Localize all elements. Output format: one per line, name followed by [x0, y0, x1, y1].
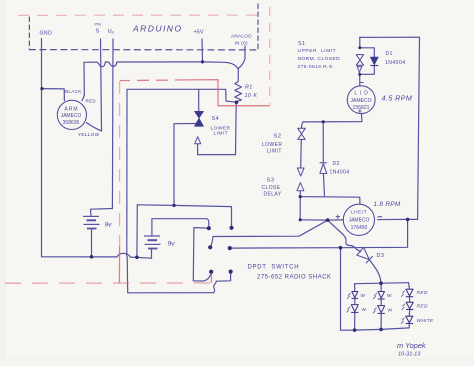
svg-text:176450: 176450: [351, 225, 368, 231]
LED W5 column3 bottom white: [406, 316, 413, 323]
svg-text:W: W: [361, 293, 366, 299]
svg-text:m Yopek: m Yopek: [397, 341, 426, 350]
junction node GND to black wire: [40, 87, 43, 90]
LED W5 emission arrows: [401, 318, 405, 324]
wire LED array bottom rail: [341, 328, 410, 330]
red marker dashed segment toward left vertical: [120, 79, 187, 82]
switch S2 actuator arrow open: [297, 168, 304, 176]
svg-text:275-0616 R.S.: 275-0616 R.S.: [298, 64, 335, 70]
svg-text:JAMECO: JAMECO: [349, 218, 370, 224]
svg-text:NORM. CLOSED: NORM. CLOSED: [298, 56, 341, 62]
switch S2 contact bowtie: [298, 128, 305, 139]
switch S4 top lead: [198, 89, 200, 111]
svg-text:YELLOW: YELLOW: [78, 132, 100, 137]
wire diagonal from M2 plus node to D3 with curl: [328, 220, 361, 251]
motor M1 bottom lead to S2 chain: [302, 113, 362, 128]
svg-text:155821: 155821: [353, 105, 370, 111]
wire battery A top lead: [91, 209, 113, 217]
junction node M2 plus diagonal: [326, 218, 330, 222]
battery B bottom lead: [151, 249, 153, 259]
svg-text:9v: 9v: [105, 222, 113, 229]
svg-text:RED: RED: [417, 304, 428, 310]
Arduino boundary dashed left riser: [28, 17, 30, 50]
junction node LED rail top middle: [379, 281, 383, 285]
LED R2 column3 middle: [406, 302, 413, 309]
switch S4 actuator lead to R1 bottom sense line: [198, 103, 237, 155]
LED R2 emission arrows: [402, 304, 405, 310]
svg-text:9v: 9v: [168, 241, 176, 248]
red marker dashed bottom boundary: [5, 282, 212, 284]
junction node LED rail bottom col2: [379, 328, 383, 332]
battery B2 9V plates: [144, 236, 161, 249]
junction node S1 bottom: [358, 73, 361, 76]
wire +5V vertical: [201, 39, 204, 62]
svg-text:RED: RED: [86, 99, 97, 104]
diode D1: [370, 57, 378, 65]
svg-text:LIMIT: LIMIT: [214, 131, 229, 137]
wire GND bottom horizontal rail: [42, 256, 118, 258]
svg-text:S3: S3: [267, 178, 275, 184]
LED R1 column3 top: [406, 289, 413, 297]
wire LED array top rail: [355, 283, 409, 284]
DPDT switch contact top-left: [207, 226, 211, 230]
svg-text:S2: S2: [274, 134, 282, 140]
motor M2 minus mark: [378, 216, 383, 218]
LED W1 emission arrows: [347, 293, 351, 299]
svg-text:W: W: [388, 308, 393, 314]
svg-text:10-31-13: 10-31-13: [398, 352, 421, 358]
svg-text:BLACK: BLACK: [65, 89, 82, 94]
wire inner box left continues below hop: [127, 257, 213, 293]
LED W4 emission arrows: [373, 308, 377, 314]
wire battery rail to DPDT top-right contact: [137, 205, 231, 227]
svg-text:IN (0): IN (0): [235, 41, 248, 46]
svg-text:W: W: [387, 293, 392, 299]
diode D3 bottom lead to LED rail: [369, 260, 381, 284]
red marker solid left vertical lower part: [118, 246, 120, 283]
motor M2 circle: [343, 204, 374, 235]
wire node down to motor M2 plus rail: [299, 197, 301, 220]
junction node +5V: [201, 60, 204, 63]
junction node M2 minus: [406, 218, 410, 222]
switch S3 actuator arrow open: [297, 183, 304, 191]
junction node D2 top: [322, 120, 325, 123]
switch S1 lower lead: [359, 72, 361, 74]
svg-text:LOWER: LOWER: [262, 142, 282, 148]
LED column 3 leads: [409, 283, 410, 328]
motor M1 LID circle: [347, 86, 375, 114]
svg-text:JAMECO: JAMECO: [350, 98, 371, 104]
wire Pin5 vertical: [101, 39, 102, 131]
svg-text:JAMECO: JAMECO: [61, 113, 82, 119]
motor M3 ARM circle: [57, 100, 86, 129]
motor M1 top lead: [359, 75, 361, 86]
wire motor M2 plus rail: [300, 219, 343, 221]
motor M1 ARM red lead: [82, 62, 85, 100]
svg-text:CLOSE: CLOSE: [262, 185, 281, 191]
junction node S3 to motor M2 top: [299, 195, 302, 198]
svg-text:ARM: ARM: [64, 107, 78, 113]
LED W4 column2 bottom: [378, 306, 385, 314]
wire squiggle from +5V junction to R1 top: [203, 62, 239, 70]
svg-text:ARDUINO: ARDUINO: [132, 24, 182, 34]
svg-text:1N4004: 1N4004: [330, 170, 350, 176]
svg-text:D1: D1: [386, 51, 393, 57]
wire S4 bottom contact to DPDT feed: [174, 124, 197, 206]
switch S1 top lead: [359, 37, 361, 47]
wire S3 actuator to node, then to motor M2 top: [300, 191, 360, 204]
svg-text:5: 5: [96, 29, 99, 35]
svg-text:1.8 RPM: 1.8 RPM: [374, 201, 401, 208]
svg-text:UPPER LIMIT: UPPER LIMIT: [298, 48, 337, 54]
red marker solid corner around R1 box: [187, 80, 270, 106]
battery B top lead to DPDT top-left contact: [152, 219, 209, 236]
switch S2 lower lead: [300, 140, 303, 168]
svg-text:LIMIT: LIMIT: [267, 149, 282, 155]
wire +5V horizontal with hops over Pin5 and Vin: [84, 62, 203, 67]
svg-text:R1: R1: [245, 85, 253, 91]
svg-text:358636: 358636: [63, 120, 80, 126]
wire vertical from rail corner down to GND junction: [136, 205, 138, 257]
diode D2 top lead from motor M1 bottom wire: [322, 122, 324, 163]
svg-text:275-652 RADIO SHACK: 275-652 RADIO SHACK: [257, 275, 332, 281]
LED W2 column1 bottom: [351, 305, 358, 313]
LED W3 column2 top: [378, 292, 385, 300]
DPDT switch contact mid-right: [228, 246, 232, 250]
motor M1 plus mark: [358, 109, 361, 112]
wire Analog In lead: [238, 46, 245, 69]
svg-text:ANALOG: ANALOG: [231, 34, 252, 39]
svg-text:LHEIT: LHEIT: [351, 210, 367, 216]
battery B1 9V plates: [83, 216, 100, 228]
svg-text:+5V: +5V: [194, 30, 204, 36]
diode D3: [357, 247, 373, 263]
wire GND rail to battery junctions: [131, 257, 152, 258]
wire right vertical from S1 top rail down to motor M2 minus: [360, 37, 420, 219]
diode D2: [320, 163, 327, 174]
junction node S4 feed on battery rail: [172, 204, 175, 207]
junction node battery A minus: [90, 255, 94, 259]
red marker dashed right vertical: [269, 7, 271, 105]
DPDT switch contact mid-left: [208, 245, 212, 249]
LED column 1 leads: [354, 284, 356, 330]
red marker short riser at DPDT: [211, 274, 213, 283]
svg-text:1N4004: 1N4004: [385, 60, 406, 66]
diode D2 bottom lead: [323, 174, 324, 197]
switch S1 contact bowtie: [356, 55, 363, 66]
resistor R1: [235, 70, 242, 103]
wire inner box: R1 bottom up-over-left and down to DPDT bottom: [127, 89, 237, 256]
junction node LED rail bottom col1: [353, 328, 357, 332]
Arduino boundary dashed horizontal: [29, 49, 258, 51]
junction node R1 bottom: [235, 101, 239, 105]
battery A bottom lead: [91, 229, 93, 257]
svg-text:GND: GND: [40, 31, 53, 37]
wire jog up from bottom wire to DPDT bottom row: [214, 281, 217, 293]
LED W1 column1 top: [352, 292, 358, 299]
svg-text:Vin: Vin: [108, 29, 116, 35]
svg-text:D3: D3: [377, 253, 385, 259]
svg-text:S4: S4: [212, 116, 220, 122]
motor M1 minus mark: [360, 82, 364, 84]
LED column 2 leads: [380, 283, 382, 329]
svg-text:W: W: [362, 307, 367, 313]
switch S1 actuator arrow: [357, 67, 362, 73]
wire hop over red line and box wire: [117, 253, 131, 257]
wire GND vertical from Arduino: [41, 39, 43, 257]
switch S4 actuator arrow open: [195, 137, 201, 144]
DPDT switch contact top-right: [229, 226, 233, 230]
DPDT switch contact bottom-left: [209, 270, 213, 274]
Arduino boundary dashed right riser: [257, 4, 259, 50]
wire LED array left vertical: [340, 248, 342, 331]
svg-text:WHITE: WHITE: [417, 318, 434, 324]
switch S4 contact bowtie: [195, 111, 204, 126]
junction node M2 plus rail left: [299, 218, 302, 221]
svg-text:PIN: PIN: [95, 23, 102, 27]
red marker dashed top boundary: [5, 7, 270, 283]
junction node battery B minus rail: [135, 255, 139, 259]
wire DPDT mid-left pole to motor M2 plus node: [211, 220, 328, 247]
svg-text:4.5 RPM: 4.5 RPM: [382, 94, 413, 103]
svg-text:10 K: 10 K: [245, 93, 258, 99]
DPDT switch contact bottom-right: [229, 270, 233, 274]
wire Vin vertical down to battery A: [111, 39, 114, 209]
svg-text:DPDT SWITCH: DPDT SWITCH: [248, 265, 300, 271]
motor M1 ARM black lead: [42, 89, 64, 101]
svg-text:DELAY: DELAY: [264, 192, 282, 198]
LED W3 emission arrows: [373, 293, 377, 299]
junction node S1 top: [358, 46, 361, 49]
svg-text:L I D: L I D: [354, 91, 368, 97]
red marker dashed left vertical: [119, 81, 121, 246]
junction node LED feed left: [339, 246, 343, 250]
svg-text:RED: RED: [417, 290, 428, 296]
wire DPDT bottom-right contact lead: [216, 272, 230, 281]
LED W2 emission arrows: [347, 307, 351, 313]
svg-text:S1: S1: [298, 41, 306, 47]
motor M2 plus mark: [336, 215, 340, 220]
svg-text:D2: D2: [333, 161, 340, 167]
wire DPDT jumper: top-left contact around to bottom-left contact: [193, 228, 211, 281]
LED R1 emission arrows: [401, 291, 405, 297]
wire yellow servo lead to Pin5: [86, 123, 101, 131]
wire DPDT mid-right pole to LED feed: [230, 220, 408, 249]
diode D1 branch wires: [360, 48, 375, 75]
